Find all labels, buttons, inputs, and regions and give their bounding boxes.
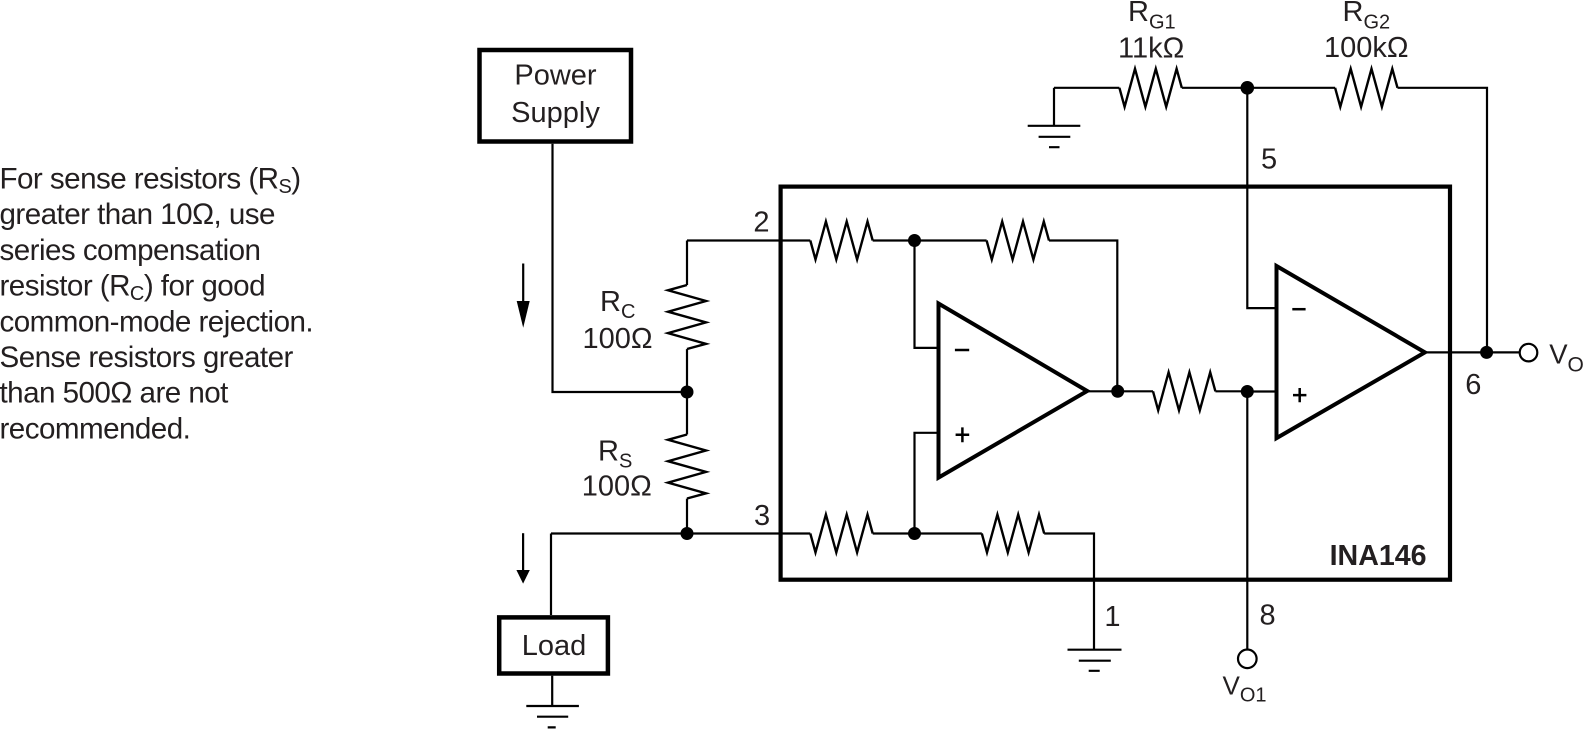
svg-text:Power: Power xyxy=(514,60,597,92)
svg-text:series compensation: series compensation xyxy=(0,234,260,267)
svg-text:INA146: INA146 xyxy=(1330,540,1427,572)
svg-text:than 500Ω are not: than 500Ω are not xyxy=(0,377,228,410)
svg-text:2: 2 xyxy=(753,207,769,239)
svg-text:Load: Load xyxy=(522,630,587,662)
svg-text:3: 3 xyxy=(754,500,770,532)
svg-text:6: 6 xyxy=(1465,369,1481,401)
svg-text:For sense resistors (RS): For sense resistors (RS) xyxy=(0,163,301,199)
svg-text:Sense resistors greater: Sense resistors greater xyxy=(0,341,293,374)
svg-text:100Ω: 100Ω xyxy=(583,323,653,355)
svg-text:100kΩ: 100kΩ xyxy=(1324,32,1409,64)
svg-text:1: 1 xyxy=(1104,601,1120,633)
svg-text:5: 5 xyxy=(1261,144,1277,176)
svg-text:100Ω: 100Ω xyxy=(582,470,652,502)
svg-text:common-mode rejection.: common-mode rejection. xyxy=(0,305,313,338)
svg-text:Supply: Supply xyxy=(511,97,600,129)
svg-text:8: 8 xyxy=(1260,600,1276,632)
svg-text:greater than 10Ω, use: greater than 10Ω, use xyxy=(0,198,275,231)
svg-text:recommended.: recommended. xyxy=(0,412,190,445)
svg-text:11kΩ: 11kΩ xyxy=(1118,33,1184,65)
